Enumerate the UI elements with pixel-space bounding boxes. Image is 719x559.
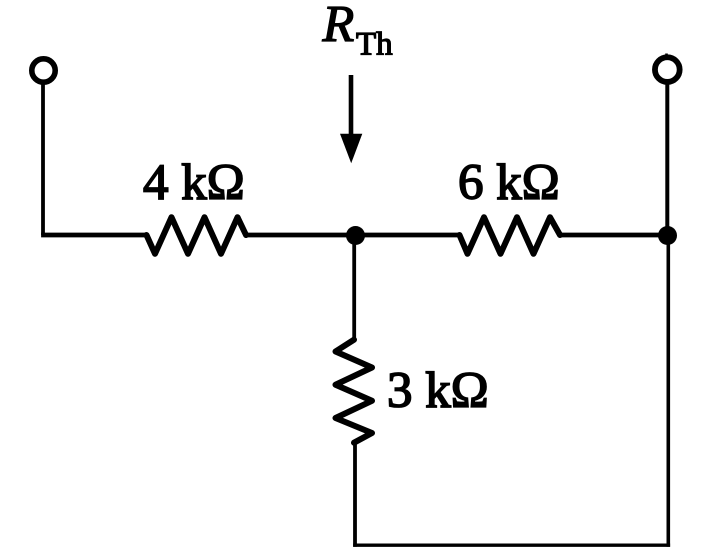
wire: right node down to bottom right corner: [666, 235, 670, 547]
node: center junction dot: [346, 226, 365, 245]
svg-text:Th: Th: [356, 27, 393, 63]
svg-text:3 kΩ: 3 kΩ: [387, 363, 489, 419]
wire: left terminal down to main node row: [41, 84, 45, 235]
svg-text:4 kΩ: 4 kΩ: [143, 155, 245, 211]
wire: right terminal down to right node: [665, 82, 669, 236]
arrow shaft (R_Th looking-in arrow): [349, 75, 354, 140]
resistor 4 kOhm (zigzag): [147, 217, 247, 254]
svg-text:R: R: [322, 0, 355, 53]
wire: 4k right lead to center node: [246, 233, 360, 238]
svg-text:6 kΩ: 6 kΩ: [458, 155, 560, 211]
terminal B (top-right open circle): [655, 57, 680, 82]
arrow head: [340, 134, 362, 164]
wire: center node to 6k left lead: [355, 233, 460, 238]
resistor 3 kOhm (vertical zigzag): [336, 340, 373, 443]
wire: bottom rail: [353, 544, 670, 547]
wire: 6k right lead to right node: [560, 233, 670, 238]
wire: 3k bottom lead down to bottom rail: [353, 442, 357, 547]
wire: left corner to 4k left lead: [41, 233, 147, 238]
node: right junction dot: [658, 226, 677, 245]
terminal A (top-left open circle): [32, 59, 55, 82]
wire: center node down to 3k top lead: [352, 235, 356, 340]
resistor 6 kOhm (zigzag): [460, 217, 561, 254]
